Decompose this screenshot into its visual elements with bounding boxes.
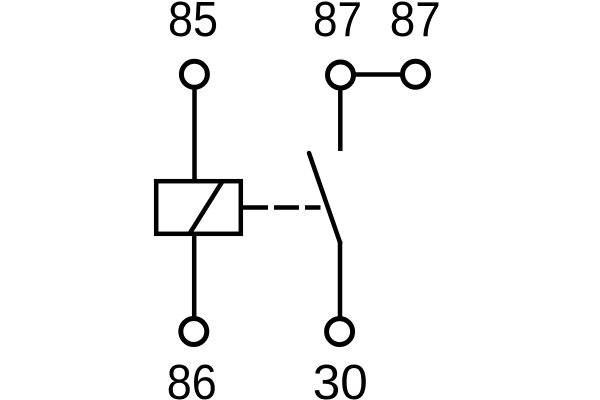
relay coil K1: [156, 181, 241, 234]
wire coil to terminal 86: [192, 234, 197, 317]
svg-text:87: 87: [390, 0, 441, 47]
svg-text:86: 86: [167, 355, 217, 400]
wire switch pivot to terminal 30: [338, 241, 343, 317]
svg-text:30: 30: [313, 355, 368, 400]
svg-text:87: 87: [313, 0, 362, 47]
switch arm (movable contact): [309, 153, 340, 243]
terminal 87 (left): [328, 62, 354, 88]
terminal 30: [327, 319, 353, 345]
terminal 87 (right): [403, 61, 429, 87]
terminal 85: [181, 61, 207, 87]
wire terminal 87 left to fixed contact: [338, 90, 343, 151]
terminal 86: [181, 319, 207, 345]
svg-text:85: 85: [168, 0, 218, 47]
dashed actuating link: [243, 205, 321, 210]
wire bridge between 87 terminals: [354, 72, 402, 77]
wire terminal 85 to coil: [192, 89, 197, 181]
